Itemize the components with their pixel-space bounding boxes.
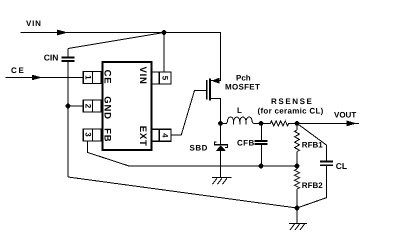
svg-text:CFB: CFB [237, 138, 255, 147]
svg-text:CE: CE [11, 66, 26, 75]
svg-text:FB: FB [101, 128, 112, 142]
svg-text:1: 1 [83, 75, 92, 80]
svg-text:SBD: SBD [190, 144, 208, 153]
svg-text:Pch: Pch [236, 73, 251, 82]
svg-text:CIN: CIN [44, 53, 59, 63]
svg-text:CE: CE [101, 70, 112, 85]
svg-text:(for ceramic CL): (for ceramic CL) [258, 107, 324, 116]
svg-text:5: 5 [160, 76, 169, 81]
svg-text:CL: CL [336, 161, 347, 171]
svg-text:MOSFET: MOSFET [225, 83, 260, 92]
svg-text:RFB2: RFB2 [302, 181, 323, 190]
svg-text:VOUT: VOUT [334, 110, 356, 119]
svg-text:EXT: EXT [137, 126, 148, 147]
svg-text:GND: GND [101, 96, 112, 120]
svg-text:4: 4 [160, 133, 169, 138]
svg-text:VIN: VIN [137, 66, 148, 84]
svg-text:L: L [237, 106, 242, 115]
svg-text:2: 2 [83, 104, 92, 109]
svg-text:VIN: VIN [26, 19, 42, 28]
svg-text:RFB1: RFB1 [302, 141, 323, 150]
svg-text:3: 3 [83, 132, 92, 137]
svg-text:RSENSE: RSENSE [271, 97, 314, 106]
